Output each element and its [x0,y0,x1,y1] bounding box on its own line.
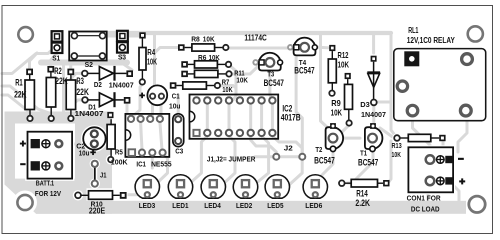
wire C3 top up [177,95,180,113]
wire D3 to relay pad [374,101,390,104]
svg-text:LED2: LED2 [236,201,252,210]
svg-text:R5: R5 [115,148,123,157]
wire S2 bottom band [41,60,127,66]
svg-text:DC LOAD: DC LOAD [411,204,440,213]
wire relay pad to CON1 [413,111,431,159]
svg-text:LED1: LED1 [172,201,188,210]
wire top horizontal 2 [104,35,142,38]
wire T4 to R12 [317,46,328,50]
diode D1 [82,92,130,107]
svg-text:10u: 10u [169,101,181,110]
IC IC2 4017B [190,95,279,139]
svg-text:12V,1C0 RELAY: 12V,1C0 RELAY [407,36,456,45]
svg-text:R6: R6 [198,53,206,62]
svg-text:S1: S1 [52,53,60,62]
resistor R11 [181,70,231,77]
svg-text:C3: C3 [175,147,183,156]
LED LED2 [233,175,257,198]
mounting hole top-right [468,26,483,41]
label batt minus [20,163,25,165]
svg-text:R4: R4 [147,47,155,57]
svg-text:LED5: LED5 [267,201,283,210]
svg-text:R9: R9 [331,98,341,108]
wire R11 right to T3 [229,63,262,74]
svg-text:T1: T1 [360,148,367,157]
transistor T4 [288,38,317,56]
svg-text:R12: R12 [338,50,349,60]
wire IC2 to J2 [251,101,277,152]
wire R10 to LED3 [122,193,147,196]
resistor R2 [46,66,55,121]
svg-text:1N4007: 1N4007 [361,110,386,119]
resistor R9 [345,73,353,126]
wire top-left down diagonal [2,86,52,114]
wire R4 bottom down [133,84,142,118]
diode D2 [82,66,133,81]
resistor R1 [25,69,34,122]
svg-text:CON1 FOR: CON1 FOR [407,194,442,203]
ground pour under BATT [5,179,113,214]
wire T3 down [270,67,272,99]
wire R8 right to T4 [226,47,293,50]
labels layer [14,25,465,215]
components layer [17,26,485,212]
resistor R14 [339,179,390,187]
svg-text:22K: 22K [76,87,89,97]
wire C1b [160,96,163,118]
wire R7 right join [217,86,236,89]
label batt plus [20,141,26,147]
wire IC2 to LED4 [214,101,235,185]
svg-text:11174C: 11174C [244,34,267,43]
wire top-left up diagonal [2,48,54,74]
mounting hole bottom-left [17,195,32,210]
wire band down between R2 R3 [62,66,65,113]
wire R3 top up [71,56,78,71]
transistor T3 [253,53,282,71]
wire R2 top up [51,52,58,69]
label C2 plus [90,150,96,156]
svg-text:D3: D3 [360,100,370,109]
wire R8 left feed [155,48,181,54]
wire relay right pad down [458,111,467,152]
wire R5 to J1 [95,160,111,164]
wire D1 left [70,100,85,107]
LED LED6 [303,175,327,198]
wire R13 to T1 [380,128,394,138]
switch S1 [52,31,63,53]
svg-text:IC1: IC1 [136,159,146,168]
wire x391 vertical [391,33,397,138]
svg-text:R3: R3 [76,76,84,86]
svg-text:100K: 100K [111,158,128,167]
svg-text:J1: J1 [100,171,107,180]
wire CON1 row2 down [427,186,430,202]
LED clearance dents [131,171,333,188]
wire x391 down to R14 [388,141,391,183]
resistor R10 [75,191,127,200]
LED LED5 [265,175,289,198]
copper trace layer [2,33,467,214]
svg-text:LED6: LED6 [305,201,322,210]
diode D3 [367,56,380,106]
ground pour C2 block [75,112,112,184]
label con plus [459,178,465,184]
svg-text:10K: 10K [338,60,350,70]
wire C2 up [84,112,94,126]
wire top-left down diagonal 2 [2,95,28,111]
svg-text:S3: S3 [118,52,126,61]
svg-text:S2: S2 [85,60,93,69]
ground pour left strip [5,112,16,185]
svg-text:D2: D2 [94,80,102,89]
svg-text:R1: R1 [15,77,23,87]
wire T2 to LED6 [314,150,334,183]
svg-text:1N4007: 1N4007 [109,81,134,90]
label con minus [458,158,464,160]
svg-text:BATT.1: BATT.1 [36,178,54,187]
LED LED1 [168,175,192,198]
svg-text:BC547: BC547 [314,155,335,165]
wire D1 pad down to IC1 [126,102,129,114]
jumper J2 [273,154,305,160]
wire IC2 to LED2 [246,101,269,185]
connector CON1 [408,147,453,192]
resistor R3 [66,69,75,122]
svg-text:10K: 10K [222,85,233,94]
wire long top horizontal [104,31,391,35]
switch S3 [117,31,128,53]
wire IC1 to LED3 [150,153,168,185]
resistor R7 [170,82,220,89]
wire T1 bottom to R14 [345,150,373,183]
svg-text:BC547: BC547 [358,158,378,168]
svg-text:2.2K: 2.2K [355,198,370,208]
wire R1 top to S1 [30,53,38,71]
wire CON1 tab2 to band [452,184,459,201]
svg-text:10K: 10K [209,53,221,62]
resistor R5 [107,112,115,162]
svg-text:C1: C1 [172,91,180,100]
svg-text:RL1: RL1 [408,25,418,35]
wire vertical mid x154 [153,33,156,88]
wire BATT to C2 [58,143,81,146]
resistor R12 [328,45,336,96]
svg-text:4017B: 4017B [281,112,301,122]
wire inside IC1 a [141,122,142,150]
svg-text:22K: 22K [55,76,68,86]
wire D3 to T1 [372,105,375,122]
svg-text:J2: J2 [284,144,293,153]
svg-text:10K: 10K [392,150,402,159]
svg-text:J1,J2= JUMPER: J1,J2= JUMPER [207,154,256,163]
wire inside IC1 b [160,122,162,150]
LED LED4 [201,175,225,198]
svg-text:BC547: BC547 [294,66,314,76]
svg-text:R2: R2 [54,66,62,76]
wire IC1 pin stub [151,153,154,168]
svg-text:NE555: NE555 [151,159,172,168]
svg-text:LED4: LED4 [204,201,221,210]
svg-text:1N4007: 1N4007 [75,109,104,118]
svg-text:10K: 10K [331,108,343,118]
mounting hole top-left [18,27,33,42]
wire S3 down [122,55,132,70]
wire T2 to T1 [337,137,360,140]
svg-text:LED3: LED3 [139,201,156,210]
wire IC2 to LED5 [272,101,302,185]
wire T4 base down [296,52,302,153]
capacitor C2 [83,127,105,149]
svg-text:10K: 10K [147,57,158,67]
svg-text:10K: 10K [236,75,248,84]
wire IC2 to LED1 [181,101,207,185]
relay RL1 [394,49,486,121]
LED LED3 [135,175,159,198]
wire R9 to T2 [336,125,349,136]
svg-text:R8: R8 [191,34,200,43]
wire R13 pad down [442,141,445,150]
label C1 plus [139,93,145,99]
svg-text:220E: 220E [89,206,106,215]
mounting hole bottom-right [469,196,485,212]
resistor R4 [139,32,146,84]
clearance halos [13,125,455,214]
wire J2 link [255,155,302,158]
svg-text:10K: 10K [203,34,215,43]
wire D2 left [66,73,85,84]
connector BATT.1 [28,132,73,179]
svg-text:10u: 10u [79,149,90,158]
svg-text:FOR 12V: FOR 12V [35,189,61,198]
wire T4 down vertical [321,33,329,128]
bottom gnd band [36,201,466,214]
capacitor C3 [173,114,184,147]
capacitor C1 [147,85,167,105]
IC IC1 NE555 [125,114,169,157]
resistor R6 [181,61,231,68]
wire relay left pad down [401,86,404,102]
svg-text:BC547: BC547 [264,78,284,88]
wire R6 right to IC2 [229,64,237,100]
resistor R8 [178,44,229,51]
switch S2 [69,32,107,61]
resistor R13 [394,134,445,141]
jumper J1 [92,161,98,187]
svg-text:T2: T2 [315,145,322,154]
transistor T1 [365,123,383,151]
wire C1 pads to IC1 [151,96,154,118]
svg-text:22K: 22K [14,89,27,99]
svg-text:R13: R13 [392,141,402,150]
svg-text:R14: R14 [356,188,368,198]
transistor T2 [326,123,344,151]
wire D3 top to band [372,35,375,53]
ground pour bus band left [5,112,113,124]
